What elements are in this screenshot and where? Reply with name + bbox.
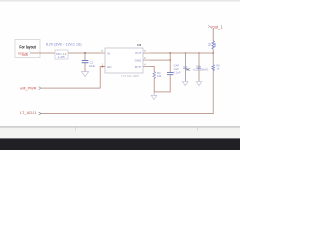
wire R4 to ground tee [153,78,156,92]
junction node input/C1 [84,52,86,54]
svg-text:For layout: For layout [19,45,36,50]
svg-text:1.2B: 1.2B [58,55,65,59]
svg-text:U2: U2 [137,43,141,47]
wire vout vertical top [212,29,215,42]
svg-text:wifi_PWR: wifi_PWR [20,87,37,91]
capacitor C5 drop [184,53,187,81]
wire C10 to tee [169,75,172,92]
pin stub GND, pin 6 [143,59,150,62]
ferrite bead FB1 [55,50,68,59]
svg-text:LT_ADJ1: LT_ADJ1 [20,111,37,115]
dark taskbar band [0,138,240,150]
wire tee to C10 bottom [154,91,171,94]
svg-text:BYP: BYP [135,65,141,69]
capacitor C1 [82,60,89,61]
border tick marks [74,128,77,131]
capacitor C12 drop [198,53,201,81]
pin stub BYP, pin 4 [143,65,150,68]
wire EN to pin [100,65,105,68]
svg-text:NC: NC [186,67,191,71]
ground C12 [196,82,202,86]
note box "For layout" [15,40,40,58]
svg-text:10k: 10k [213,42,217,47]
wire R5 to OUT rail [212,49,215,53]
capacitor C12 plates [197,66,201,69]
wire OUT rail down to R6 [212,53,215,64]
wire GND pin jog [150,59,170,62]
svg-text:0.1uF: 0.1uF [174,70,181,74]
wire BYP pin to R4 [150,65,154,68]
ground C5 [182,82,188,86]
IC U2 body [105,48,143,73]
pin stub OUT, pin 5 [143,52,150,55]
pin stub EN, pin 1 [101,65,105,68]
wire EN vertical [99,67,102,89]
capacitor C1 lead [84,53,87,60]
status strip [0,128,240,139]
svg-text:10k: 10k [157,74,162,78]
ground R4/C10 [153,92,156,95]
ground C1 [81,72,88,77]
capacitor C10 drop from OUT rail [169,53,172,72]
junction node EN [102,66,104,68]
svg-text:10uF: 10uF [89,64,96,68]
wire input rail [32,52,55,55]
svg-text:vout_1: vout_1 [210,24,223,29]
junction node at OUT rail x199 [198,52,199,53]
svg-text:R5: R5 [208,42,212,46]
junction node at OUT rail x185 [185,52,186,53]
wire R6 down to bottom rail [212,70,215,114]
sheet top border line [0,0,240,1]
wire FB1 to IN pin [68,52,101,55]
resistor R6 [212,65,215,71]
svg-text:C10: C10 [174,67,179,71]
resistor R4 [153,72,156,79]
capacitor C5 plates [183,66,187,69]
svg-text:LT1761-SD5: LT1761-SD5 [122,74,140,78]
wire OUT rail [150,52,213,55]
junction node vout/OUT [212,52,214,54]
svg-text:8.2V (3V8 ~ 12V,C 1S): 8.2V (3V8 ~ 12V,C 1S) [46,43,82,47]
svg-text:CAP: CAP [174,63,180,67]
pin stub IN, pin 8 [101,52,105,55]
wire EN horizontal [41,87,100,90]
svg-text:IN: IN [107,51,110,55]
junction node at OUT rail x170 [169,52,171,54]
svg-text:OUT: OUT [135,51,142,55]
capacitor C10 [167,71,173,74]
svg-text:EN: EN [107,65,111,69]
resistor R5 [212,41,215,49]
junction node GND rail at C10 drop [169,59,171,61]
sheet bottom border line [0,126,240,127]
wire C1 to ground [84,63,87,72]
svg-text:GND: GND [135,58,143,62]
wire bottom feedback rail [41,112,214,115]
svg-text:issue: issue [18,51,29,56]
